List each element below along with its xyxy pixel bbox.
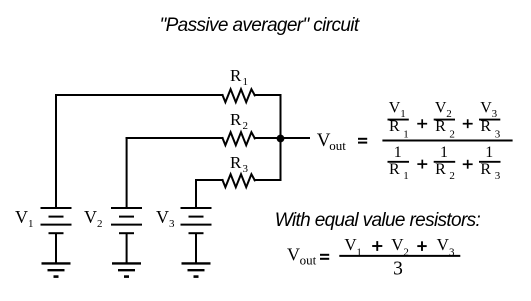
svg-text:R: R (435, 118, 446, 135)
wire R3 right to bus (255, 179, 281, 181)
formula small: Vout = (287, 245, 317, 268)
svg-text:V: V (437, 235, 450, 254)
formula big: denominator 1/R1 (388, 144, 410, 182)
svg-text:3: 3 (169, 218, 175, 230)
svg-text:V: V (435, 99, 447, 116)
svg-text:3: 3 (495, 170, 501, 182)
wire R1 right to bus (255, 94, 281, 96)
equals sign 2 (320, 254, 329, 260)
svg-text:3: 3 (492, 108, 498, 120)
formula big: numerator V3/R3 (479, 99, 501, 140)
svg-text:R: R (389, 118, 400, 135)
formula small: denominator 3 (393, 259, 403, 280)
svg-text:V: V (287, 245, 300, 265)
wire right vertical bus (280, 95, 282, 180)
svg-text:1: 1 (403, 128, 409, 140)
formula big: plus 2 numerator (463, 119, 473, 128)
svg-text:R: R (435, 161, 446, 178)
formula big: numerator V2/R2 (434, 99, 455, 140)
wire V1 vertical (55, 95, 57, 208)
svg-text:out: out (300, 252, 317, 267)
svg-text:R: R (480, 118, 491, 135)
svg-text:1: 1 (440, 144, 448, 161)
svg-text:1: 1 (485, 144, 493, 161)
wire V3 vertical (195, 180, 197, 208)
battery V3 (181, 208, 212, 263)
svg-text:R: R (230, 153, 242, 172)
wire R2 right to bus (255, 137, 281, 139)
svg-text:3: 3 (495, 128, 501, 140)
resistor R3 (223, 174, 255, 187)
formula big: plus 1 numerator (417, 119, 427, 128)
label R2 (230, 110, 248, 132)
svg-text:1: 1 (400, 108, 406, 120)
label V2 (84, 207, 103, 230)
svg-text:V: V (84, 207, 97, 227)
svg-text:R: R (389, 161, 400, 178)
svg-text:V: V (15, 207, 28, 227)
formula big: plus 1 denominator (417, 160, 427, 169)
svg-text:1: 1 (243, 76, 249, 88)
svg-text:V: V (480, 99, 492, 116)
label V3 (156, 207, 175, 230)
formula small: plus 2 (417, 241, 426, 251)
formula small: plus 1 (372, 241, 382, 251)
battery V2 (111, 208, 142, 263)
svg-text:V: V (391, 235, 404, 254)
svg-text:R: R (230, 66, 242, 85)
svg-text:V: V (156, 207, 169, 227)
wire R2 horizontal (127, 137, 223, 139)
label Vout (317, 130, 346, 153)
formula big: main bar (382, 140, 512, 142)
svg-text:2: 2 (97, 218, 103, 230)
formula small: numerator V1 + V2 + V3 (344, 235, 455, 258)
label R1 (230, 66, 248, 88)
svg-text:With equal value resistors:: With equal value resistors: (275, 210, 481, 231)
svg-text:2: 2 (449, 128, 455, 140)
resistor R2 (223, 132, 255, 145)
svg-text:V: V (389, 99, 401, 116)
node junction (277, 135, 285, 143)
formula big: numerator V1/R1 (388, 99, 409, 140)
wire V2 vertical (126, 138, 128, 208)
formula big: plus 2 denominator (463, 160, 473, 169)
svg-text:2: 2 (449, 170, 455, 182)
svg-text:out: out (329, 138, 346, 153)
wire R3 horizontal (196, 179, 223, 181)
caption equal value (275, 210, 481, 231)
svg-text:1: 1 (403, 170, 409, 182)
svg-text:1: 1 (394, 144, 402, 161)
svg-text:2: 2 (446, 108, 452, 120)
svg-text:2: 2 (243, 120, 249, 132)
svg-text:R: R (230, 110, 242, 129)
battery V1 (41, 208, 72, 263)
svg-text:3: 3 (243, 163, 249, 175)
svg-text:1: 1 (28, 218, 34, 230)
ground V3 (182, 263, 211, 276)
svg-text:3: 3 (393, 259, 403, 280)
wire R1 top horizontal (56, 94, 223, 96)
ground V1 (42, 263, 71, 276)
formula big: denominator 1/R3 (479, 144, 501, 182)
wire output (281, 137, 310, 139)
svg-text:"Passive averager" circuit: "Passive averager" circuit (160, 15, 360, 36)
formula small: bar (339, 255, 460, 257)
title (160, 15, 360, 36)
resistor R1 (223, 89, 255, 102)
label V1 (15, 207, 34, 230)
label R3 (230, 153, 249, 175)
equals sign 1 (358, 138, 367, 144)
formula big: denominator 1/R2 (434, 144, 456, 182)
svg-text:R: R (480, 161, 491, 178)
ground V2 (112, 263, 141, 276)
